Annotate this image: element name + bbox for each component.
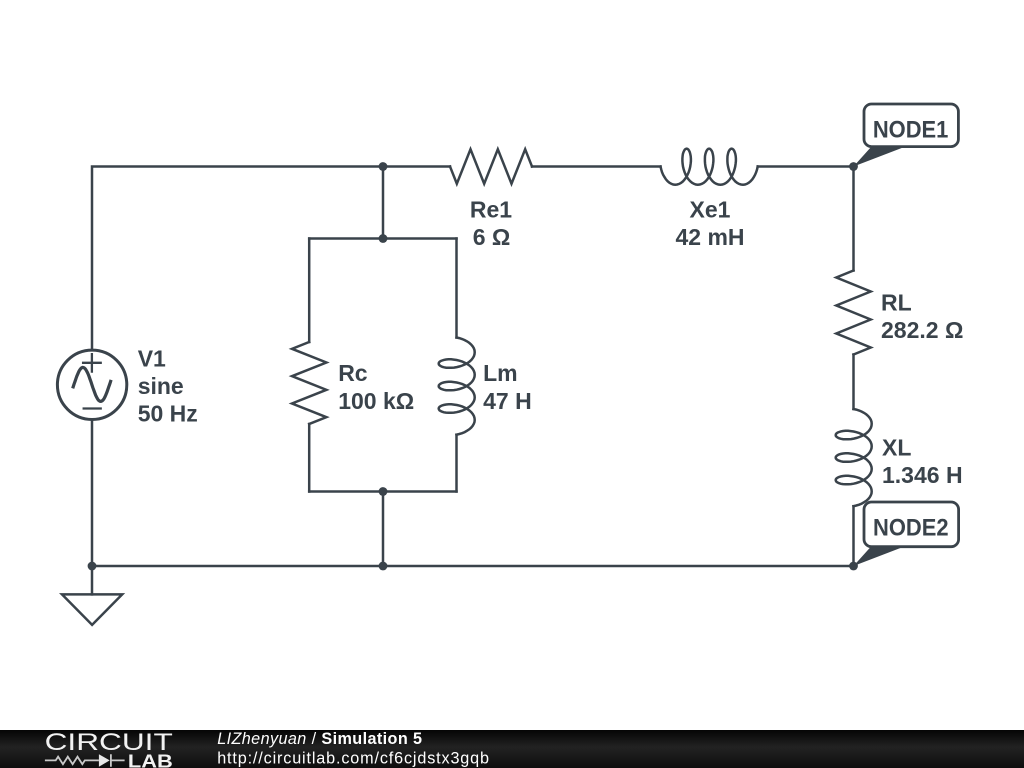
svg-text:NODE1: NODE1 — [873, 116, 949, 143]
junction dot NODE1 — [849, 162, 858, 171]
junction dot top at parallel tap — [379, 162, 388, 171]
wire: Xe1 to NODE1 junction — [758, 165, 854, 168]
svg-text:6 Ω: 6 Ω — [473, 224, 511, 250]
wire: left branch upper lead — [308, 239, 311, 343]
footer bar — [0, 730, 1024, 768]
svg-text:LAB: LAB — [128, 751, 173, 768]
voltage source V1 sine waveform — [73, 367, 110, 401]
resistor RL — [836, 271, 870, 355]
voltage source V1 circle — [57, 350, 126, 419]
svg-text:V1: V1 — [138, 345, 166, 371]
svg-text:http://circuitlab.com/cf6cjdst: http://circuitlab.com/cf6cjdstx3gqb — [217, 750, 490, 768]
wire: Re1 to Xe1 — [532, 165, 661, 168]
junction dot ground rail center — [379, 562, 388, 571]
inductor Lm — [439, 338, 475, 435]
junction dot box top — [379, 234, 388, 243]
svg-text:Re1: Re1 — [470, 197, 512, 223]
logo resistor squiggle — [45, 757, 99, 765]
wire: right branch lower lead — [455, 435, 458, 492]
wire: box bottom junction down to ground rail — [382, 492, 385, 567]
NODE2 flag box — [864, 502, 959, 547]
wire: XL to NODE2 junction — [852, 506, 855, 566]
wire: bottom ground rail — [92, 565, 854, 568]
junction dot NODE2 — [849, 562, 858, 571]
svg-text:XL: XL — [882, 435, 911, 461]
NODE1 flag box — [864, 104, 958, 147]
logo diode cathode bar and wire — [111, 754, 125, 767]
wire: top junction down to parallel box — [382, 167, 385, 239]
svg-text:100 kΩ: 100 kΩ — [338, 388, 414, 414]
wire: ground stub — [91, 566, 94, 594]
logo diode triangle — [99, 754, 110, 767]
svg-text:Xe1: Xe1 — [690, 197, 731, 223]
svg-text:47 H: 47 H — [483, 388, 532, 414]
wire: V1 bottom lead — [91, 420, 94, 567]
inductor Xe1 — [661, 149, 758, 185]
svg-text:42 mH: 42 mH — [675, 224, 744, 250]
wire: right branch upper lead — [455, 239, 458, 338]
svg-text:Rc: Rc — [338, 360, 368, 386]
resistor Re1 — [450, 149, 532, 183]
svg-text:50 Hz: 50 Hz — [138, 400, 198, 426]
wire: left branch lower lead — [308, 424, 311, 492]
wire: NODE1 down to resistor RL — [852, 167, 855, 271]
svg-text:LIZhenyuan / Simulation 5: LIZhenyuan / Simulation 5 — [217, 730, 422, 748]
svg-text:282.2 Ω: 282.2 Ω — [881, 317, 963, 343]
V1 plus sign — [83, 354, 101, 372]
resistor Rc — [292, 342, 326, 424]
svg-text:Lm: Lm — [483, 360, 517, 386]
wire: RL to XL — [852, 355, 855, 410]
NODE1 flag tail — [854, 147, 904, 167]
svg-text:NODE2: NODE2 — [873, 515, 949, 542]
junction dot ground rail left — [88, 562, 97, 571]
wire: parallel box top — [309, 237, 456, 240]
NODE2 flag tail — [854, 546, 904, 566]
svg-text:sine: sine — [138, 373, 184, 399]
wire: V1 top lead up and across to resistor Re1 — [92, 167, 450, 351]
ground symbol — [62, 594, 122, 625]
V1 minus sign — [84, 407, 101, 409]
wire: parallel box bottom — [309, 490, 456, 493]
junction dot box bottom — [379, 487, 388, 496]
svg-text:1.346 H: 1.346 H — [882, 462, 963, 488]
svg-text:RL: RL — [881, 289, 912, 315]
inductor XL — [836, 409, 872, 506]
